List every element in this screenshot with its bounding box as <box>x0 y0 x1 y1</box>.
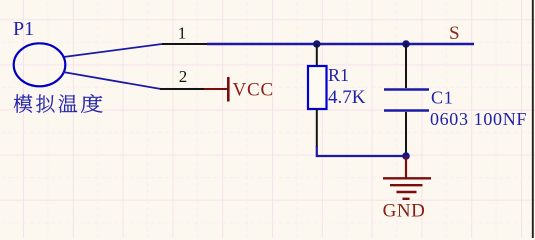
power port VCC bar <box>227 77 230 102</box>
svg-text:1: 1 <box>178 24 187 43</box>
junction node R1-top <box>313 40 321 48</box>
resistor R1 bottom pin <box>316 109 318 147</box>
svg-text:2: 2 <box>179 67 188 86</box>
designator C1 <box>431 88 453 108</box>
designator R1 <box>328 65 349 85</box>
pin number 1 <box>178 24 187 43</box>
wire net S top <box>207 43 474 45</box>
resistor R1 body <box>308 66 327 109</box>
ground label GND <box>383 201 426 222</box>
svg-text:C1: C1 <box>431 88 453 108</box>
svg-text:GND: GND <box>383 201 426 222</box>
svg-text:4.7K: 4.7K <box>328 87 366 108</box>
ground GND bar 1 <box>383 177 431 179</box>
svg-text:0603 100NF: 0603 100NF <box>430 109 527 129</box>
connector line to pin 1 <box>64 44 163 57</box>
value 0603 100NF <box>430 109 527 129</box>
ground GND stem <box>405 156 407 178</box>
capacitor C1 top plate <box>384 88 429 90</box>
net label S <box>449 23 460 44</box>
junction node C1-top <box>402 40 410 48</box>
sheet edge line <box>532 0 534 238</box>
pin 1 <box>162 43 207 45</box>
ground GND bar 2 <box>390 184 423 186</box>
capacitor C1 top pin <box>405 44 407 88</box>
wire R1 to ground net <box>317 146 406 156</box>
power label VCC <box>233 80 274 101</box>
svg-text:P1: P1 <box>13 18 34 40</box>
ground GND bar 3 <box>397 191 417 193</box>
designator P1 <box>13 18 34 40</box>
ground GND bar 4 <box>403 198 410 200</box>
value 4.7K <box>328 87 366 108</box>
power port VCC wire <box>204 88 228 90</box>
resistor R1 top pin <box>316 44 318 66</box>
connector line to pin 2 <box>63 72 161 89</box>
junction node ground net <box>402 152 410 160</box>
comment 模拟温度 <box>14 94 103 113</box>
pin number 2 <box>179 67 188 86</box>
svg-text:R1: R1 <box>328 65 349 85</box>
capacitor C1 bottom pin <box>405 112 407 156</box>
capacitor C1 bottom plate <box>384 109 429 111</box>
svg-text:S: S <box>449 23 460 44</box>
svg-text:VCC: VCC <box>233 80 274 101</box>
pin 2 <box>160 88 204 90</box>
connector P1 <box>14 43 66 86</box>
